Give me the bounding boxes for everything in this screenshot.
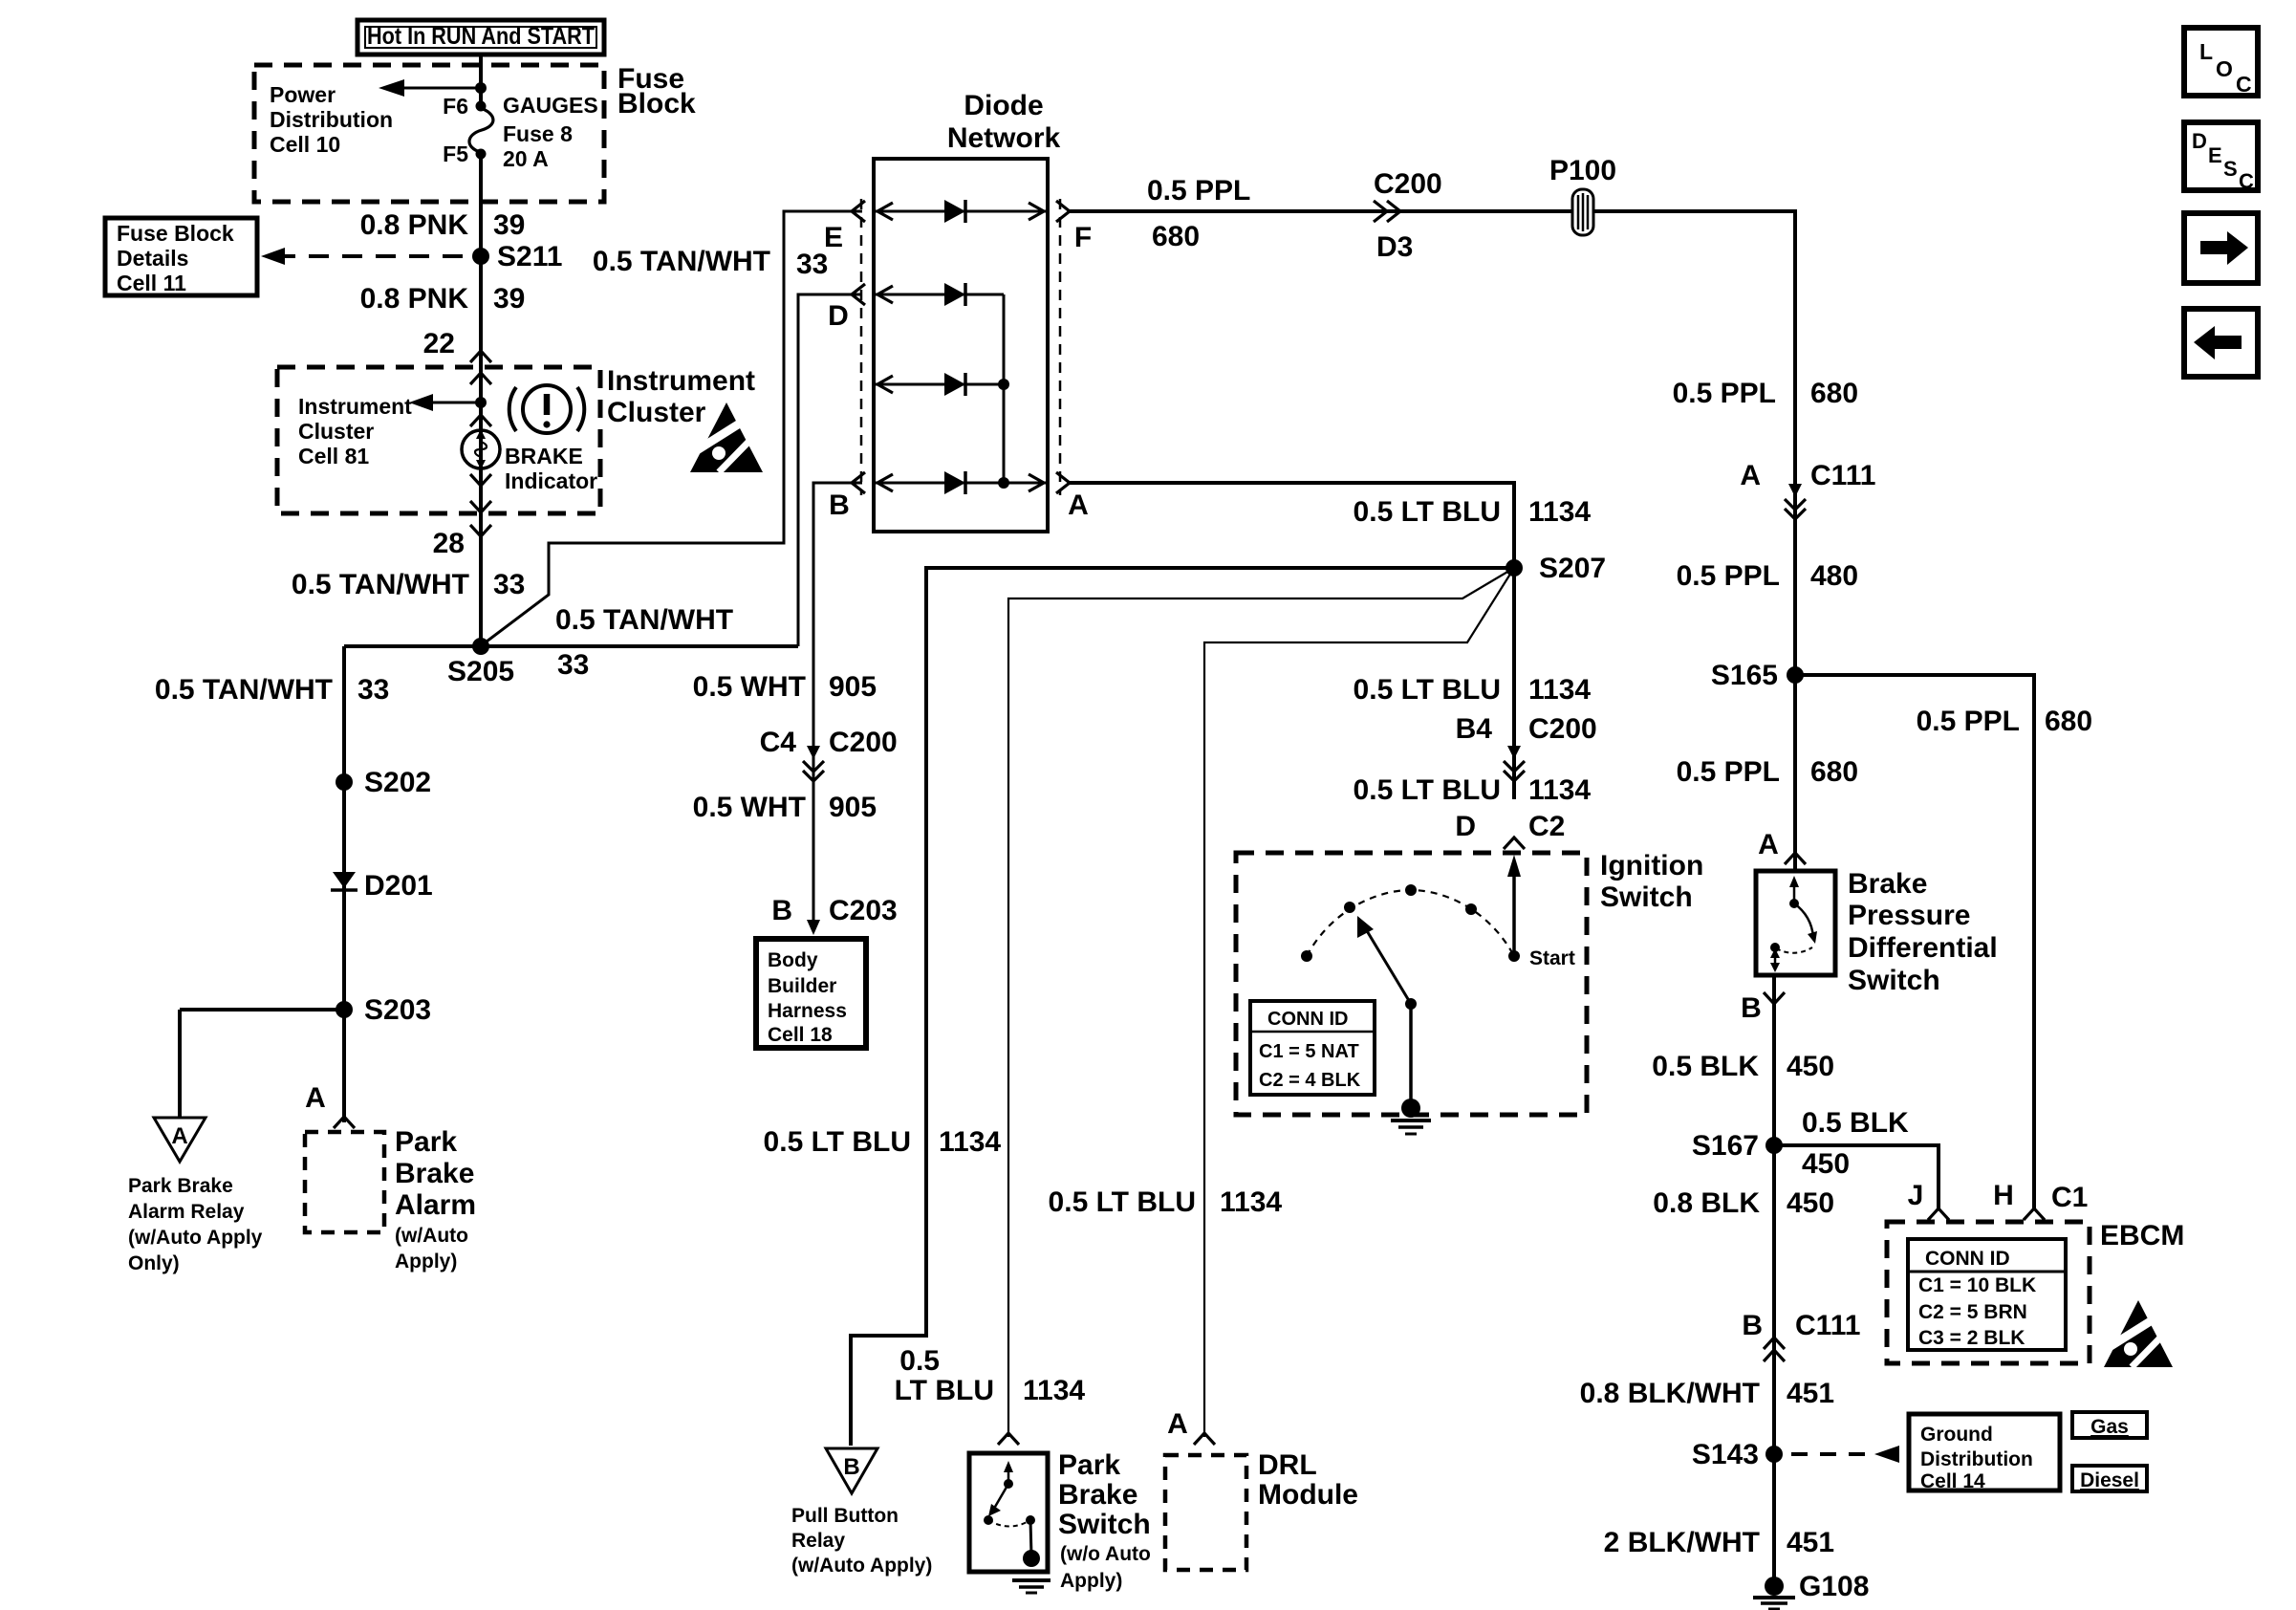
svg-text:0.5 BLK: 0.5 BLK xyxy=(1802,1107,1909,1139)
thin wire S207 to park brake switch xyxy=(1008,568,1514,1437)
svg-text:33: 33 xyxy=(357,674,389,706)
svg-text:A: A xyxy=(1167,1408,1188,1440)
svg-text:C1: C1 xyxy=(2051,1182,2088,1213)
svg-text:Brake: Brake xyxy=(1848,868,1927,900)
label BRAKE Indicator xyxy=(505,444,597,493)
label 0.5 LT BLU 1134 (A wire) xyxy=(1354,496,1592,528)
diode network connector dashed lines xyxy=(861,199,1060,495)
svg-text:0.5 LT BLU: 0.5 LT BLU xyxy=(764,1126,911,1158)
svg-text:A: A xyxy=(1740,460,1761,491)
svg-text:Brake: Brake xyxy=(395,1158,474,1189)
park brake switch contacts xyxy=(984,1461,1035,1556)
svg-text:DRL: DRL xyxy=(1258,1449,1317,1481)
connector chevron above lamp xyxy=(470,415,491,426)
svg-text:O: O xyxy=(2216,56,2233,81)
label 0.5 LT BLU 1134 xyxy=(1354,774,1592,806)
wire S165 to brake pressure differential switch xyxy=(1793,675,1797,871)
splice S207 xyxy=(1505,553,1606,584)
svg-text:C111: C111 xyxy=(1810,460,1875,491)
svg-text:LT BLU: LT BLU xyxy=(895,1375,994,1406)
svg-text:B: B xyxy=(829,490,850,521)
wire 0.5 LT BLU 1134 from diode A to S207 xyxy=(1070,483,1514,568)
Diesel box xyxy=(2072,1466,2147,1491)
svg-text:Hot In RUN And START: Hot In RUN And START xyxy=(367,23,595,50)
svg-text:C2: C2 xyxy=(1528,811,1565,842)
svg-text:E: E xyxy=(2208,143,2222,167)
svg-text:Gas: Gas xyxy=(2090,1416,2129,1438)
svg-text:0.5 LT BLU: 0.5 LT BLU xyxy=(1354,774,1501,806)
node junction to power distribution xyxy=(475,82,487,94)
label Park Brake Alarm (w/Auto Apply) xyxy=(395,1126,476,1273)
label Instrument Cluster xyxy=(607,365,755,428)
svg-text:33: 33 xyxy=(557,649,589,681)
svg-text:C1 = 5 NAT: C1 = 5 NAT xyxy=(1259,1041,1359,1062)
svg-text:1134: 1134 xyxy=(1528,496,1591,528)
ESD sensitive icon (EBCM) xyxy=(2104,1300,2173,1367)
svg-text:2 BLK/WHT: 2 BLK/WHT xyxy=(1604,1527,1760,1558)
wire S203 to park brake alarm xyxy=(342,1010,346,1122)
svg-text:450: 450 xyxy=(1787,1051,1834,1082)
label 0.5 LT BLU 1134 xyxy=(1354,674,1592,706)
svg-text:A: A xyxy=(171,1123,187,1149)
svg-text:Harness: Harness xyxy=(768,1000,847,1022)
arrow to Power Distribution xyxy=(379,79,481,97)
label Park Brake Alarm Relay (w/Auto Apply Only) xyxy=(128,1175,263,1274)
svg-text:H: H xyxy=(1993,1180,2014,1211)
svg-text:Pressure: Pressure xyxy=(1848,900,1970,931)
svg-text:0.5 LT BLU: 0.5 LT BLU xyxy=(1354,496,1501,528)
ignition switch wiper arrow xyxy=(1357,916,1417,1108)
svg-text:0.5 PPL: 0.5 PPL xyxy=(1917,706,2020,737)
svg-text:S167: S167 xyxy=(1692,1130,1759,1162)
terminal B C203 into body builder harness xyxy=(771,895,897,935)
page link button next (right arrow) xyxy=(2184,213,2258,283)
svg-text:B: B xyxy=(771,895,792,926)
svg-text:L: L xyxy=(2199,39,2213,64)
label 0.5 PPL 680 (right column) xyxy=(1673,378,1858,409)
svg-text:GAUGES: GAUGES xyxy=(503,93,598,118)
fuse block dashed outline xyxy=(254,65,604,202)
svg-text:Diesel: Diesel xyxy=(2080,1469,2139,1491)
label 0.8 PNK 39 xyxy=(360,283,526,315)
svg-text:Apply): Apply) xyxy=(1060,1570,1122,1592)
label 0.5 LT BLU 1134 (park brake switch wire) xyxy=(895,1345,1086,1406)
svg-text:0.5 TAN/WHT: 0.5 TAN/WHT xyxy=(292,569,469,600)
svg-text:C: C xyxy=(2239,169,2254,193)
svg-text:39: 39 xyxy=(493,209,525,241)
svg-text:C3 = 2 BLK: C3 = 2 BLK xyxy=(1918,1327,2025,1349)
svg-text:Diode: Diode xyxy=(964,90,1043,121)
svg-text:Cluster: Cluster xyxy=(607,397,706,428)
body builder harness box xyxy=(756,939,866,1048)
terminal J of EBCM xyxy=(1908,1180,1949,1220)
svg-text:0.5 BLK: 0.5 BLK xyxy=(1652,1051,1759,1082)
svg-text:Switch: Switch xyxy=(1848,965,1940,996)
label 0.5 BLK over 450 (branch) xyxy=(1802,1107,1909,1180)
svg-text:Block: Block xyxy=(617,88,696,120)
wire 0.5 PPL 680 from diode F to S165 xyxy=(1070,211,1795,675)
label Ignition Switch xyxy=(1600,850,1703,913)
svg-text:C: C xyxy=(2236,72,2252,97)
svg-text:D: D xyxy=(2192,129,2207,153)
inline connector B C111 (bottom) xyxy=(1742,1310,1860,1361)
svg-text:CONN ID: CONN ID xyxy=(1925,1248,2010,1270)
page link button DESC xyxy=(2184,122,2258,193)
dashed arrow from S143 to ground distribution xyxy=(1791,1446,1899,1463)
label Brake Pressure Differential Switch xyxy=(1848,868,1998,996)
svg-text:0.8 BLK: 0.8 BLK xyxy=(1653,1187,1760,1219)
svg-text:0.5 WHT: 0.5 WHT xyxy=(693,671,806,703)
Gas box xyxy=(2072,1412,2147,1438)
svg-text:Instrument: Instrument xyxy=(298,394,412,419)
svg-text:1134: 1134 xyxy=(939,1126,1001,1158)
terminal chevron A xyxy=(1056,472,1089,521)
svg-text:C4: C4 xyxy=(760,727,797,758)
svg-text:C2 = 5 BRN: C2 = 5 BRN xyxy=(1918,1301,2027,1323)
svg-text:Indicator: Indicator xyxy=(505,468,597,493)
svg-text:B: B xyxy=(1741,992,1762,1024)
label 0.8 BLK 450 xyxy=(1653,1187,1834,1219)
splice S143 xyxy=(1692,1439,1783,1470)
svg-text:S203: S203 xyxy=(364,994,431,1026)
label 0.5 WHT 905 xyxy=(693,671,877,703)
terminal chevron B xyxy=(829,472,865,521)
svg-text:39: 39 xyxy=(493,283,525,315)
wire from diode D down to S205 run xyxy=(798,294,862,646)
svg-text:Pull Button: Pull Button xyxy=(791,1505,899,1527)
terminal chevron D xyxy=(828,284,865,332)
wire 0.5 BLK 450 from switch B to G108 xyxy=(1772,975,1776,1586)
svg-text:Module: Module xyxy=(1258,1479,1358,1511)
diode network internal vertical wire xyxy=(1003,294,1006,483)
power feed label box: Hot In RUN And START xyxy=(357,20,604,54)
svg-text:C1 = 10 BLK: C1 = 10 BLK xyxy=(1918,1274,2036,1296)
svg-text:C111: C111 xyxy=(1795,1310,1860,1341)
svg-text:0.8 PNK: 0.8 PNK xyxy=(360,283,469,315)
svg-text:1134: 1134 xyxy=(1220,1186,1282,1218)
svg-text:B4: B4 xyxy=(1456,713,1493,745)
svg-text:D3: D3 xyxy=(1376,231,1413,263)
svg-text:Power: Power xyxy=(270,82,336,107)
terminal F5 xyxy=(443,141,486,166)
svg-text:0.8 PNK: 0.8 PNK xyxy=(360,209,469,241)
terminal A of brake pressure differential switch xyxy=(1758,829,1806,864)
inline connector B4 C200 xyxy=(1456,713,1597,781)
svg-text:Cell 18: Cell 18 xyxy=(768,1024,833,1046)
terminal chevron into park brake switch xyxy=(998,1433,1019,1445)
splice S211 xyxy=(472,241,562,272)
label 0.5 PPL 680 (F row) xyxy=(1147,175,1250,252)
label 2 BLK/WHT 451 xyxy=(1604,1527,1834,1558)
svg-text:S165: S165 xyxy=(1711,660,1778,691)
svg-text:480: 480 xyxy=(1810,560,1858,592)
page connector triangle B (pull button relay) xyxy=(826,1448,877,1493)
brake pressure differential switch contacts xyxy=(1770,876,1817,972)
svg-text:CONN ID: CONN ID xyxy=(1267,1009,1348,1030)
ESD sensitive icon (instrument cluster) xyxy=(690,402,763,472)
label Power Distribution Cell 10 xyxy=(270,82,393,157)
node junction to instrument cluster arrow xyxy=(475,397,487,408)
svg-text:G108: G108 xyxy=(1799,1571,1869,1602)
svg-text:F: F xyxy=(1074,222,1092,253)
svg-text:D: D xyxy=(1455,811,1476,842)
svg-text:0.5 TAN/WHT: 0.5 TAN/WHT xyxy=(555,604,733,636)
svg-text:Start: Start xyxy=(1529,947,1575,969)
label 0.8 PNK 39 xyxy=(360,209,526,241)
terminal B of brake pressure differential switch xyxy=(1741,992,1785,1024)
svg-text:Body: Body xyxy=(768,949,818,971)
diode row B-A xyxy=(876,471,1046,494)
label Diode Network xyxy=(947,90,1061,154)
ground distribution box xyxy=(1909,1414,2060,1492)
ignition switch dashed outline xyxy=(1236,853,1587,1115)
wire 0.5 BLK 450 branch S167 to EBCM J xyxy=(1774,1145,1939,1208)
svg-text:S202: S202 xyxy=(364,767,431,798)
park brake alarm dashed outline xyxy=(305,1132,384,1232)
svg-text:Brake: Brake xyxy=(1058,1479,1137,1511)
svg-text:1134: 1134 xyxy=(1528,674,1591,706)
label DRL Module xyxy=(1258,1449,1358,1511)
svg-text:Fuse 8: Fuse 8 xyxy=(503,121,573,146)
svg-text:28: 28 xyxy=(433,528,465,559)
svg-text:Alarm Relay: Alarm Relay xyxy=(128,1201,245,1223)
ignition switch CONN ID table xyxy=(1250,1001,1375,1095)
svg-text:Distribution: Distribution xyxy=(270,107,393,132)
connector chevrons below lamp xyxy=(470,474,491,536)
svg-text:Ground: Ground xyxy=(1920,1424,1993,1446)
svg-text:D: D xyxy=(828,300,849,332)
svg-text:Cluster: Cluster xyxy=(298,419,374,444)
splice S205 xyxy=(447,638,514,687)
svg-text:451: 451 xyxy=(1787,1378,1834,1409)
label Instrument Cluster Cell 81 xyxy=(298,394,412,468)
ignition switch rotary arc with detent dots xyxy=(1301,884,1514,962)
svg-text:P100: P100 xyxy=(1549,155,1616,186)
svg-text:(w/Auto: (w/Auto xyxy=(395,1225,468,1247)
svg-text:0.5 LT BLU: 0.5 LT BLU xyxy=(1049,1186,1196,1218)
svg-text:1134: 1134 xyxy=(1528,774,1591,806)
svg-text:A: A xyxy=(1758,829,1779,860)
terminal chevron E xyxy=(824,201,865,253)
svg-text:0.5 TAN/WHT: 0.5 TAN/WHT xyxy=(155,674,333,706)
inline connector C4 C200 xyxy=(760,727,898,781)
svg-text:A: A xyxy=(1068,490,1089,521)
fuse block details box xyxy=(105,218,257,295)
label 0.5 TAN/WHT 33 xyxy=(292,569,525,600)
svg-text:S211: S211 xyxy=(497,241,562,272)
wire S207 to pull button relay (0.5 LT BLU 1134) xyxy=(851,568,1514,1446)
svg-text:S: S xyxy=(2223,157,2238,181)
svg-text:(w/o Auto: (w/o Auto xyxy=(1060,1543,1151,1565)
svg-text:Switch: Switch xyxy=(1600,881,1693,913)
svg-text:680: 680 xyxy=(1810,378,1858,409)
svg-text:0.5 PPL: 0.5 PPL xyxy=(1677,756,1780,788)
wire to park brake alarm relay xyxy=(180,1010,344,1118)
svg-text:905: 905 xyxy=(829,671,877,703)
svg-text:1134: 1134 xyxy=(1023,1375,1085,1406)
svg-text:Details: Details xyxy=(117,246,188,271)
label 0.5 PPL 680 xyxy=(1677,756,1858,788)
svg-text:680: 680 xyxy=(2045,706,2092,737)
svg-text:C203: C203 xyxy=(829,895,898,926)
label Park Brake Switch (w/o Auto Apply) xyxy=(1058,1449,1151,1592)
EBCM CONN ID table xyxy=(1908,1239,2066,1350)
svg-text:C200: C200 xyxy=(829,727,898,758)
svg-text:0.5 PPL: 0.5 PPL xyxy=(1677,560,1780,592)
diode row E-F xyxy=(876,200,1046,223)
wire 0.5 TAN/WHT 33 horizontal at S205 xyxy=(344,644,798,648)
svg-text:0.8 BLK/WHT: 0.8 BLK/WHT xyxy=(1580,1378,1760,1409)
svg-text:F5: F5 xyxy=(443,141,468,166)
DRL module dashed outline xyxy=(1165,1455,1246,1570)
wire S207 down to ignition switch xyxy=(1512,568,1516,799)
svg-text:B: B xyxy=(843,1454,859,1480)
svg-text:680: 680 xyxy=(1810,756,1858,788)
grommet P100 xyxy=(1549,155,1616,235)
svg-text:Switch: Switch xyxy=(1058,1509,1151,1540)
diode row D xyxy=(876,283,1004,306)
svg-text:C200: C200 xyxy=(1374,168,1442,200)
svg-text:EBCM: EBCM xyxy=(2100,1220,2184,1251)
fuse GAUGES Fuse 8 20 A xyxy=(469,93,598,171)
ignition switch start contact arrow xyxy=(1507,855,1575,969)
terminal H of EBCM xyxy=(1993,1180,2045,1220)
splice S203 xyxy=(336,994,431,1026)
svg-text:C200: C200 xyxy=(1528,713,1597,745)
svg-text:F6: F6 xyxy=(443,94,468,119)
svg-text:J: J xyxy=(1908,1180,1924,1211)
dashed arrow from S211 to Fuse Block Details xyxy=(261,248,477,265)
terminal D C2 of ignition switch xyxy=(1455,811,1565,849)
svg-text:Ignition: Ignition xyxy=(1600,850,1703,881)
svg-text:Alarm: Alarm xyxy=(395,1189,476,1221)
svg-text:Distribution: Distribution xyxy=(1920,1448,2033,1470)
diode D201 xyxy=(331,870,433,902)
svg-text:C2 = 4 BLK: C2 = 4 BLK xyxy=(1259,1070,1361,1091)
svg-text:S207: S207 xyxy=(1539,553,1606,584)
brake warning symbol ((!)) xyxy=(509,385,585,433)
svg-text:451: 451 xyxy=(1787,1527,1834,1558)
svg-text:33: 33 xyxy=(493,569,525,600)
svg-text:0.5 TAN/WHT: 0.5 TAN/WHT xyxy=(593,246,770,277)
svg-text:680: 680 xyxy=(1152,221,1200,252)
svg-text:(w/Auto Apply): (w/Auto Apply) xyxy=(791,1555,932,1577)
label 0.5 TAN/WHT 33 (E wire) xyxy=(593,246,828,280)
label 0.5 PPL 480 xyxy=(1677,560,1858,592)
terminal F6 xyxy=(443,94,486,119)
label 0.5 PPL 680 (EBCM branch) xyxy=(1917,706,2092,737)
brake pressure differential switch box xyxy=(1756,871,1835,975)
svg-text:Apply): Apply) xyxy=(395,1251,457,1273)
connector chevrons into instrument cluster xyxy=(470,351,491,384)
svg-text:Cell 10: Cell 10 xyxy=(270,132,340,157)
svg-text:Cell 81: Cell 81 xyxy=(298,444,369,468)
instrument cluster dashed outline xyxy=(277,367,600,513)
svg-text:0.5 PPL: 0.5 PPL xyxy=(1673,378,1776,409)
arrow to Instrument Cluster Cell 81 xyxy=(409,394,481,411)
wire from Hot box into fuse block xyxy=(479,54,483,105)
page link button LOC xyxy=(2184,28,2258,97)
svg-text:0.5 WHT: 0.5 WHT xyxy=(693,792,806,823)
svg-text:0.5: 0.5 xyxy=(899,1345,940,1377)
svg-text:Park: Park xyxy=(395,1126,457,1158)
svg-text:S205: S205 xyxy=(447,656,514,687)
label 0.5 BLK 450 xyxy=(1652,1051,1834,1082)
label 0.5 WHT 905 xyxy=(693,792,877,823)
diode row 3 xyxy=(876,373,1009,396)
svg-text:0.5 PPL: 0.5 PPL xyxy=(1147,175,1250,207)
svg-text:Cell 11: Cell 11 xyxy=(117,271,186,295)
svg-text:BRAKE: BRAKE xyxy=(505,444,583,468)
page link button previous (left arrow) xyxy=(2184,309,2258,377)
svg-text:(w/Auto Apply: (w/Auto Apply xyxy=(128,1227,263,1249)
svg-text:Cell 14: Cell 14 xyxy=(1920,1470,1985,1492)
EBCM dashed outline xyxy=(1887,1222,2090,1363)
park brake switch ground xyxy=(1012,1550,1051,1593)
svg-text:D201: D201 xyxy=(364,870,433,902)
inline connector C200 D3 xyxy=(1374,168,1442,263)
label 0.5 TAN/WHT 33 (left branch) xyxy=(155,674,389,706)
terminal A of DRL module xyxy=(1167,1408,1215,1445)
label 0.8 BLK/WHT 451 xyxy=(1580,1378,1834,1409)
svg-text:33: 33 xyxy=(796,249,828,280)
svg-text:20 A: 20 A xyxy=(503,146,549,171)
svg-text:Relay: Relay xyxy=(791,1530,845,1552)
wire from diode B down to body builder harness (0.5 WHT 905) xyxy=(813,483,862,929)
svg-text:450: 450 xyxy=(1787,1187,1834,1219)
diode network box xyxy=(874,159,1048,532)
label Pull Button Relay (w/Auto Apply) xyxy=(791,1505,932,1577)
ground G108 xyxy=(1753,1571,1869,1609)
svg-text:Park Brake: Park Brake xyxy=(128,1175,233,1197)
svg-text:B: B xyxy=(1742,1310,1763,1341)
inline connector A C111 xyxy=(1740,460,1875,519)
label 0.5 TAN/WHT above / 33 below right of S205 xyxy=(555,604,733,681)
splice S165 xyxy=(1711,660,1804,691)
wire from diode E to S205 (0.5 TAN/WHT 33) xyxy=(483,211,862,644)
splice S202 xyxy=(336,767,431,798)
label 0.5 LT BLU 1134 (pull button wire) xyxy=(764,1126,1002,1158)
svg-text:905: 905 xyxy=(829,792,877,823)
svg-text:Fuse Block: Fuse Block xyxy=(117,221,234,246)
wire 0.5 PPL 680 branch from S165 to EBCM H xyxy=(1795,675,2034,1208)
terminal chevron F xyxy=(1056,201,1092,253)
label 0.5 LT BLU 1134 (DRL wire) xyxy=(1049,1186,1283,1218)
svg-text:Differential: Differential xyxy=(1848,932,1998,964)
svg-text:A: A xyxy=(305,1082,326,1114)
terminal A of park brake alarm xyxy=(305,1082,355,1128)
svg-text:0.5 LT BLU: 0.5 LT BLU xyxy=(1354,674,1501,706)
svg-text:Park: Park xyxy=(1058,1449,1120,1481)
park brake switch box xyxy=(969,1453,1048,1572)
thin wire S207 to DRL module xyxy=(1204,568,1514,1437)
svg-text:450: 450 xyxy=(1802,1148,1850,1180)
wire 0.8 PNK 39 from F5 to instrument cluster xyxy=(479,154,483,646)
svg-text:22: 22 xyxy=(423,328,455,359)
wire 0.5 TAN/WHT 33 left vertical to S203 xyxy=(342,646,346,1010)
splice S167 xyxy=(1692,1130,1783,1162)
svg-text:Instrument: Instrument xyxy=(607,365,755,397)
svg-text:Builder: Builder xyxy=(768,975,836,997)
BRAKE indicator lamp xyxy=(462,429,500,469)
svg-text:Network: Network xyxy=(947,122,1061,154)
page connector triangle A (park brake alarm relay) xyxy=(154,1118,206,1162)
svg-text:Only): Only) xyxy=(128,1252,180,1274)
svg-text:S143: S143 xyxy=(1692,1439,1759,1470)
label Fuse Block xyxy=(617,63,696,120)
ignition switch ground xyxy=(1391,1099,1431,1134)
